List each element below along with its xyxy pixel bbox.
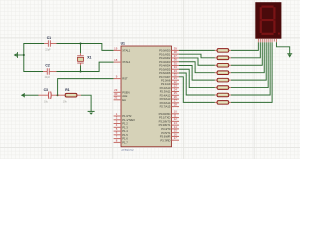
- wire P0.5 to resistor 6: [179, 69, 215, 87]
- resistor (segment 6): [215, 86, 231, 90]
- wire P0.1 to resistor 2: [179, 54, 215, 58]
- U1 pin 19 XTAL1: [114, 46, 131, 52]
- wire P0.2 to resistor 3: [179, 58, 215, 65]
- U1 pin 5 P1.4: [114, 127, 129, 133]
- svg-text:C2: C2: [45, 63, 49, 67]
- U1 pin 15 P3.5/T1: [161, 129, 179, 135]
- ground symbol GND4: [287, 53, 292, 57]
- wire display common to GND4: [277, 42, 290, 53]
- junction crystal bottom: [80, 71, 82, 73]
- svg-text:XTAL2: XTAL2: [122, 60, 130, 64]
- U1 pin 38 P0.1/AD1: [159, 50, 179, 56]
- U1 pin 3 P1.2: [114, 119, 129, 125]
- capacitor C2: [43, 63, 57, 79]
- U1 pin 29 PSEN: [114, 88, 130, 94]
- U1 pin 11 P3.1/TXD: [159, 113, 179, 119]
- U1 pin 34 P0.5/AD5: [159, 65, 179, 71]
- wire P0.3 to resistor 4: [179, 62, 215, 73]
- svg-text:P3.7/RD: P3.7/RD: [160, 138, 170, 142]
- svg-text:AT89C52: AT89C52: [121, 148, 134, 152]
- resistor (segment 3): [215, 63, 231, 67]
- svg-text:22pF: 22pF: [45, 76, 51, 79]
- svg-text:22pF: 22pF: [45, 48, 51, 51]
- junction C3/R1/RST: [57, 94, 59, 96]
- U1 pin 2 P1.1/T2EX: [114, 116, 136, 122]
- wire resistor 5 to display pin 5: [231, 42, 266, 80]
- svg-text:P2.7/A15: P2.7/A15: [160, 105, 171, 109]
- wire C2 to XTAL2 (pin 18): [57, 62, 114, 71]
- U1 pin 17 P3.7/RD: [160, 136, 179, 142]
- svg-text:19: 19: [114, 46, 118, 50]
- 7-segment display: [255, 2, 281, 42]
- U1 pin 18 XTAL2: [114, 58, 131, 64]
- resistor (segment 8): [215, 101, 231, 105]
- svg-text:P1.7: P1.7: [122, 141, 128, 145]
- U1 pin 37 P0.2/AD2: [159, 54, 179, 60]
- U1 pin 9 RST: [114, 75, 128, 81]
- microcontroller U1 AT89C52 body: [121, 42, 172, 152]
- resistor (segment 2): [215, 56, 231, 60]
- U1 pin 27 P2.6/A14: [160, 99, 179, 105]
- svg-text:17: 17: [174, 136, 178, 140]
- wire resistor 8 to display pin 8: [231, 42, 272, 102]
- svg-text:U1: U1: [121, 42, 125, 46]
- wire resistor 6 to display pin 6: [231, 42, 268, 87]
- svg-text:C1: C1: [47, 36, 51, 40]
- svg-text:C3: C3: [44, 88, 48, 92]
- U1 pin 10 P3.0/RXD: [159, 110, 179, 116]
- U1 pin 35 P0.4/AD4: [159, 61, 179, 67]
- U1 pin 39 P0.0/AD0: [159, 46, 179, 52]
- capacitor C1: [44, 36, 57, 51]
- svg-text:X1: X1: [87, 56, 91, 60]
- U1 pin 22 P2.1/A9: [161, 80, 179, 86]
- U1 pin 23 P2.2/A10: [160, 84, 179, 90]
- svg-text:31: 31: [114, 96, 118, 100]
- crystal X1: [77, 44, 91, 72]
- resistor (segment 7): [215, 93, 231, 97]
- svg-text:18: 18: [114, 58, 118, 62]
- wire resistor 7 to display pin 7: [231, 42, 270, 95]
- U1 pin 12 P3.2/INT0: [159, 117, 179, 123]
- U1 pin 28 P2.7/A15: [160, 102, 179, 108]
- U1 pin 14 P3.4/T0: [161, 125, 179, 131]
- wire resistor 2 to display pin 2: [231, 42, 260, 58]
- U1 pin 4 P1.3: [114, 123, 129, 129]
- wire R1 to GND3: [81, 95, 91, 111]
- svg-text:XTAL1: XTAL1: [122, 49, 130, 53]
- U1 pin 7 P1.6: [114, 135, 129, 141]
- wire P0.6 to resistor 7: [179, 73, 215, 95]
- wire RST net: [58, 79, 114, 96]
- junction rail/GND1: [23, 54, 25, 56]
- U1 pin 24 P2.3/A11: [160, 87, 179, 93]
- U1 pin 8 P1.7: [114, 138, 129, 144]
- svg-text:R1: R1: [65, 88, 69, 92]
- svg-text:28: 28: [174, 102, 178, 106]
- svg-text:EA: EA: [122, 98, 126, 102]
- U1 pin 1 P1.0/T2: [114, 112, 132, 118]
- capacitor C3 (electrolytic): [39, 88, 58, 104]
- U1 pin 30 ALE: [114, 92, 128, 98]
- wire P0.7 to resistor 8: [179, 77, 215, 103]
- resistor (segment 1): [215, 49, 231, 53]
- U1 pin 16 P3.6/WR: [160, 132, 179, 138]
- junction crystal top: [80, 43, 82, 45]
- U1 pin 21 P2.0/A8: [161, 76, 179, 82]
- wire resistor 4 to display pin 4: [231, 42, 264, 72]
- U1 pin 33 P0.6/AD6: [159, 69, 179, 75]
- U1 pin 36 P0.3/AD3: [159, 58, 179, 64]
- wire C1 to XTAL1 (pin 19): [57, 44, 114, 51]
- svg-text:RST: RST: [122, 77, 128, 81]
- U1 pin 13 P3.3/INT1: [159, 121, 179, 127]
- wire resistor 1 to display pin 1: [231, 42, 258, 50]
- wire GND2 to C3: [25, 94, 39, 96]
- resistor (segment 5): [215, 78, 231, 82]
- wire P0.4 to resistor 5: [179, 65, 215, 80]
- wire ground rail to C1/C2: [24, 44, 44, 72]
- svg-text:10u: 10u: [44, 101, 49, 104]
- ground symbol GND2: [21, 93, 25, 97]
- ground symbol GND1: [14, 52, 24, 58]
- wire resistor 3 to display pin 3: [231, 42, 262, 65]
- resistor (segment 4): [215, 71, 231, 75]
- U1 pin 25 P2.4/A12: [160, 91, 179, 97]
- U1 pin 31 EA: [114, 96, 126, 102]
- resistor R1: [58, 88, 81, 104]
- U1 pin 26 P2.5/A13: [160, 95, 179, 101]
- U1 pin 6 P1.5: [114, 131, 129, 137]
- U1 pin 32 P0.7/AD7: [159, 73, 179, 79]
- wire P0.0 to resistor 1: [179, 49, 215, 51]
- ground symbol GND3: [88, 111, 95, 115]
